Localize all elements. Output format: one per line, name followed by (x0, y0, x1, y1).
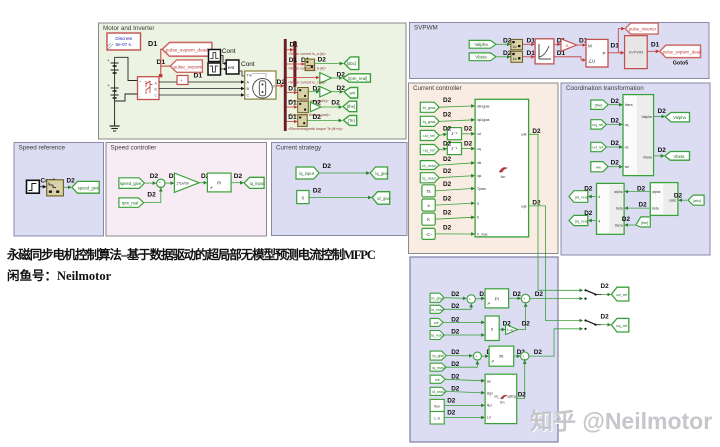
svg-text:Motor and Inverter: Motor and Inverter (103, 25, 154, 32)
wire ud_ref to z1 (439, 134, 446, 135)
constant a (422, 199, 435, 211)
tag id_read (from, dec1) (430, 305, 444, 313)
svg-text:D1: D1 (290, 42, 299, 49)
tag pulse_inverter (goto) (625, 23, 658, 34)
unit delay z1 (447, 128, 461, 140)
sum3 (q-axis) (473, 352, 481, 361)
tag id_read (from) (420, 161, 439, 170)
svg-text:ud_ref: ud_ref (423, 133, 435, 138)
svg-text:we: we (487, 379, 491, 383)
svg-text:Valpha: Valpha (474, 42, 488, 47)
svg-text:Tm: Tm (247, 74, 252, 78)
svg-text:D2: D2 (658, 147, 667, 154)
wire flux to fcn2 (444, 404, 484, 406)
PMSM motor block (245, 71, 276, 99)
constant 0 (297, 191, 309, 204)
svg-text:D2: D2 (443, 126, 452, 133)
switch block Cont (220, 56, 239, 75)
svg-text:iq_read: iq_read (422, 176, 435, 181)
wire motor m to bus (276, 85, 284, 87)
svg-text:fcn: fcn (501, 175, 506, 179)
panel Speed controller (106, 143, 267, 237)
svg-text:<Stator current is_b (A)>: <Stator current is_b (A)> (288, 66, 326, 70)
svg-text:D2: D2 (147, 192, 156, 199)
mux block (abc merge) (305, 59, 315, 71)
svg-text:D2: D2 (443, 225, 452, 232)
svg-text:Coordination transformation: Coordination transformation (566, 85, 644, 92)
svg-text:we: we (625, 165, 629, 169)
svg-text:D2: D2 (443, 168, 452, 175)
svg-text:beta: beta (652, 206, 659, 210)
svg-text:uq: uq (477, 147, 481, 151)
svg-text:+: + (180, 78, 183, 83)
svg-text:D1: D1 (148, 39, 157, 48)
tag iq_input (goto) (244, 177, 265, 188)
wire gain theta to the (321, 106, 342, 108)
tag [the] (from, park2) (636, 217, 651, 227)
rate transition 1 (511, 39, 523, 49)
svg-text:D2: D2 (331, 100, 340, 107)
wire sum1 to PI1 (475, 297, 484, 300)
svg-text:wn: wn (349, 91, 355, 96)
svg-text:rpm_real: rpm_real (122, 200, 139, 205)
manual switch 1 (584, 289, 601, 300)
tag rpm_real (from) (119, 198, 144, 207)
svg-text:–: – (470, 300, 472, 304)
tag iq_gwa (from) (420, 116, 439, 126)
svg-text:Ts: Ts (426, 189, 430, 194)
svg-text:id_gwa: id_gwa (423, 105, 436, 110)
wire udk down to switch1 (529, 134, 583, 290)
wire clarke alpha to park2 (625, 191, 650, 193)
constant Ts (422, 185, 435, 197)
svg-text:PI: PI (499, 354, 503, 359)
svg-text:D2: D2 (513, 291, 522, 298)
tag we (from, dec1) (430, 318, 443, 326)
wire the to park2 thera (625, 224, 635, 226)
wire id_give to sum1 (444, 297, 466, 300)
svg-text:iq_read: iq_read (431, 334, 443, 338)
wire selector to gain (308, 91, 319, 93)
svg-text:D2: D2 (534, 349, 543, 356)
gain theta (310, 102, 321, 112)
svg-text:Speed controller: Speed controller (111, 145, 157, 152)
svg-text:vd: vd (625, 146, 629, 150)
svg-text:–: – (525, 300, 527, 304)
svg-text:pulse_svpwm_dead: pulse_svpwm_dead (663, 49, 702, 54)
wire speed to selector (287, 92, 297, 94)
svg-text:D2: D2 (443, 181, 452, 188)
svg-text:D2: D2 (522, 320, 531, 327)
svg-text:Vbeta: Vbeta (475, 55, 487, 60)
svg-text:[abc]: [abc] (693, 199, 701, 203)
svg-text:Discrete: Discrete (115, 36, 132, 41)
svg-text:flux: flux (434, 404, 440, 408)
svg-text:beta: beta (616, 207, 623, 211)
wire ramp to gain (554, 43, 561, 45)
svg-text:D2: D2 (451, 291, 460, 298)
selector block (speed) (298, 88, 309, 100)
wire park2 q out (589, 220, 596, 222)
svg-text:we: we (596, 164, 602, 169)
svg-text:D2: D2 (611, 140, 620, 147)
tag [Te] (goto) (343, 116, 356, 126)
svg-text:Cont: Cont (222, 48, 236, 55)
tag uq_ref (from, park) (591, 120, 607, 129)
rate transition 2 (511, 51, 523, 62)
gain speed (320, 86, 332, 97)
constant flux (430, 399, 444, 411)
current measurement block on phase A (177, 76, 188, 85)
PI controller (q-axis) (489, 346, 514, 366)
sum1 (d-axis) (467, 295, 475, 305)
svg-text:D1: D1 (527, 38, 536, 45)
wire Lq gain to sum2 (518, 304, 526, 330)
DC battery chain (107, 57, 119, 125)
svg-text:P: P (603, 51, 606, 56)
svg-text:[the]: [the] (347, 104, 356, 109)
svg-text:<Electromagnetic torque Te (N*: <Electromagnetic torque Te (N*m)> (288, 127, 343, 131)
svg-text:D2: D2 (318, 57, 327, 64)
svg-text:uq_ref: uq_ref (616, 323, 628, 328)
wire Ts to fcn (435, 188, 474, 191)
gain 2*pi/60 (174, 173, 199, 192)
wire iq_read to fcn (439, 176, 474, 178)
svg-text:iq_input: iq_input (299, 171, 315, 176)
svg-text:D2: D2 (443, 209, 452, 216)
sum4 (q-axis) (521, 352, 529, 361)
tag [abc] (goto) (344, 57, 359, 70)
tag [iq_rea] (goto) (569, 215, 588, 225)
wire iq_gwa to fcn (439, 120, 474, 122)
svg-text:ud_ref: ud_ref (592, 146, 604, 150)
panel Current strategy (272, 143, 408, 236)
tag [the] (from, park) (591, 100, 608, 109)
tag [rpm_real] (goto) (343, 74, 370, 82)
wire iq_input to iq_give (319, 172, 369, 174)
wire SVPWM to dead tag (647, 50, 659, 52)
svg-text:uqk: uqk (521, 204, 527, 208)
svg-text:iqk: iqk (477, 174, 482, 178)
wire park to Valpha (654, 116, 665, 118)
wire uq_ref to park (606, 123, 622, 125)
tag ud_ref (from, park) (591, 142, 607, 151)
wire rpm_real to sum (144, 188, 161, 202)
svg-text:pulse_svpwm_dead: pulse_svpwm_dead (166, 48, 209, 54)
wire park2 d out (589, 196, 596, 198)
wire inverter B to motor (159, 88, 244, 90)
wire ud_ref to park (606, 146, 622, 148)
powergui block Discrete (107, 33, 141, 50)
tag iq_read (from) (420, 173, 439, 183)
wire inverter C to motor (159, 94, 244, 96)
tag Valpha (goto) (665, 113, 689, 122)
wire iq_read to sum3 (446, 361, 477, 367)
svg-text:D1: D1 (194, 73, 203, 80)
svg-text:iq_gwa: iq_gwa (423, 119, 436, 124)
wire iq_read to product (444, 334, 484, 336)
svg-text:5e-07 s.: 5e-07 s. (115, 42, 132, 47)
tag ud_ref (goto) (611, 287, 628, 301)
constant K (422, 213, 435, 225)
svg-text:D2: D2 (584, 185, 593, 192)
wire ramp to MU lower (554, 57, 586, 60)
tag speed_give (goto) (72, 181, 100, 193)
svg-text:m: m (272, 85, 275, 89)
svg-text:vq: vq (625, 123, 629, 127)
svg-text:ud: ud (477, 132, 481, 136)
svg-text:z⁻¹: z⁻¹ (451, 146, 458, 151)
svg-text:D2: D2 (451, 361, 460, 368)
tag iq_read (from, dec2) (430, 363, 446, 371)
wire id_read to fcn (439, 163, 474, 165)
constant -C- (422, 228, 435, 239)
wire is_a (287, 49, 294, 51)
MATLAB function block (MFPC fcn) (475, 99, 528, 237)
wire z2 to fcn (462, 148, 475, 150)
wire id_read to fcn2 (446, 391, 484, 393)
product block (485, 316, 499, 341)
tag iq_give (from, dec) (430, 351, 446, 360)
panel SVPWM (410, 23, 710, 79)
wire gain to wn (331, 91, 342, 93)
tag [abc] (from, clarke) (688, 195, 704, 205)
svg-text:V_max: V_max (477, 232, 488, 236)
tag Valpha (from) (469, 40, 496, 48)
svg-text:D2: D2 (313, 114, 322, 121)
constant L-d (430, 412, 444, 425)
svg-text:D2: D2 (611, 98, 620, 105)
svg-text:we: we (435, 378, 440, 382)
tag id_give (goto) (372, 192, 391, 205)
svg-text:uq_ref: uq_ref (423, 147, 435, 152)
svg-text:2*pi/60: 2*pi/60 (177, 181, 190, 186)
rate transition block (speed ref) (47, 180, 64, 196)
wire gain to PI (199, 182, 206, 184)
svg-text:D2: D2 (443, 195, 452, 202)
block inverse park (dq to alphabeta) (623, 95, 654, 176)
svg-text:Goto5: Goto5 (673, 61, 689, 67)
svg-text:-K-: -K- (565, 43, 571, 48)
wire -C- to fcn (435, 233, 474, 235)
svg-text:q: q (598, 219, 600, 223)
wire z1 to fcn (462, 133, 475, 135)
wire we to park (608, 166, 622, 168)
svg-text:thera: thera (625, 103, 633, 107)
svg-text:D1: D1 (288, 100, 297, 107)
svg-text:D2: D2 (658, 108, 667, 115)
svg-text:D2: D2 (601, 313, 610, 320)
selector block (Te) (298, 115, 308, 127)
panel Coordination transformation (561, 83, 710, 255)
wire selector to Te tag (307, 120, 342, 122)
svg-text:D2: D2 (464, 141, 473, 148)
block M angle U (586, 39, 608, 67)
svg-text:D2: D2 (532, 199, 541, 206)
gain Lq (506, 324, 518, 334)
tag pulse_svpwm_dead (goto) (660, 45, 702, 58)
tag pulse_svpwm (from) (170, 60, 202, 72)
svg-text:<Stator current is_c (A)>: <Stator current is_c (A)> (288, 81, 326, 85)
svg-text:<Stator current is_a (A)>: <Stator current is_a (A)> (288, 52, 326, 56)
tag id_give (from, dec) (430, 293, 444, 302)
svg-text:D1: D1 (651, 42, 660, 49)
svg-text:idk: idk (477, 161, 482, 165)
svg-text:D2: D2 (150, 173, 159, 180)
wire a to fcn (435, 203, 474, 205)
svg-text:M: M (588, 44, 592, 49)
svg-text:Valpha: Valpha (641, 115, 651, 119)
wire Valpha to rt1 (496, 43, 510, 45)
block clarke (abc to alphabeta) (650, 183, 678, 216)
panel Motor and Inverter (99, 23, 407, 139)
svg-text:D1: D1 (288, 86, 297, 93)
ramp block (535, 39, 554, 64)
wire uqk down to switch2 (529, 206, 583, 321)
DC source wire bottom (115, 94, 138, 101)
tag id_gwa (from) (420, 102, 439, 112)
sum block (speed) (157, 179, 165, 188)
manual switch 2 (584, 319, 601, 330)
wire rate transition to tag (63, 186, 71, 188)
svg-text:z⁻¹: z⁻¹ (451, 131, 458, 136)
svg-text:iqk1gwa: iqk1gwa (477, 118, 490, 122)
svg-text:Tpwm: Tpwm (477, 187, 486, 191)
svg-text:[id_rea]: [id_rea] (575, 196, 588, 200)
tag iq_input (from, strategy) (296, 167, 319, 179)
tag id_read (from, dec2) (430, 387, 446, 395)
tag ud_ref (from) (420, 130, 439, 140)
svg-text:Cont: Cont (241, 61, 255, 68)
wire sum4 to switch2 (uq) (529, 329, 583, 356)
svg-text:D1: D1 (289, 57, 298, 64)
svg-text:D2: D2 (451, 303, 460, 310)
svg-text:id_give: id_give (432, 296, 444, 300)
tag speed_give (from) (119, 178, 144, 189)
svg-text:a: a (477, 202, 479, 206)
wire switch1 to ud_ref (601, 294, 611, 296)
ground (110, 121, 120, 131)
svg-text:D1: D1 (527, 50, 536, 57)
svg-text:D2: D2 (443, 156, 452, 163)
svg-text:ud_: ud_ (494, 394, 500, 398)
wire abc to clarke (679, 199, 687, 201)
svg-text:D2: D2 (451, 349, 460, 356)
wire mux to abc tag (315, 63, 343, 65)
svg-text:upling: upling (507, 394, 516, 398)
svg-text:D2: D2 (447, 397, 456, 404)
svg-text:flux: flux (487, 404, 492, 408)
svg-text:Current controller: Current controller (413, 85, 462, 92)
svg-text:PI: PI (217, 181, 221, 186)
wire 0 to id_give (309, 197, 371, 199)
wire sum3 to PI2 (481, 355, 488, 357)
label D2 rows (current controller) (443, 97, 473, 231)
block park (alphabeta to dq) (597, 183, 625, 234)
svg-text:-C-: -C- (426, 232, 432, 237)
svg-text:D2: D2 (622, 216, 631, 223)
wire rt2 to ramp (523, 56, 535, 58)
pulse generator Cont block 1 (209, 50, 221, 62)
gain -K- (svpwm) (561, 39, 577, 52)
svg-text:iq_give: iq_give (433, 354, 445, 358)
tag [the] (goto) (343, 101, 357, 112)
svg-text:SVPWM: SVPWM (629, 51, 643, 55)
wire MU P to SVPWM (608, 52, 624, 54)
caption line 1 (7, 244, 567, 263)
tag iq_give (goto) (370, 167, 389, 179)
wire id_gwa to fcn (439, 106, 474, 107)
svg-text:sign: sign (487, 391, 493, 395)
svg-text:udk: udk (521, 133, 527, 137)
wire the to park (608, 104, 622, 106)
svg-text:pulse_svpwm: pulse_svpwm (173, 64, 202, 70)
step block (27, 180, 40, 193)
svg-text:D2: D2 (518, 391, 527, 398)
svg-text:d: d (598, 195, 600, 199)
svg-text:C: C (247, 94, 250, 98)
svg-text:1/z: 1/z (513, 57, 518, 61)
svg-text:D2: D2 (443, 141, 452, 148)
bus row wm : wire to gain (287, 77, 319, 79)
svg-text:alpha: alpha (652, 190, 660, 194)
svg-text:+: + (139, 80, 141, 84)
wire K to fcn (435, 217, 474, 219)
svg-text:D2: D2 (443, 97, 452, 104)
svg-text:D2: D2 (584, 210, 593, 217)
wire junction to pulse_inverter (618, 29, 624, 53)
tag Vbeta (goto) (665, 152, 690, 161)
wire we to fcn2 (445, 379, 484, 381)
svg-text:PI: PI (495, 296, 499, 301)
tag we (from, dec2) (430, 375, 445, 383)
svg-text:Speed reference: Speed reference (19, 145, 66, 152)
pulse generator Cont block 2 (208, 63, 221, 75)
block SVPWM (625, 36, 648, 69)
svg-text:Ld: Ld (487, 416, 491, 420)
wire inverter A to motor (159, 81, 244, 83)
wire PI1 to sum2 (509, 297, 521, 299)
svg-text:iq_read: iq_read (432, 366, 444, 370)
svg-text:D2: D2 (601, 283, 610, 290)
tag [id_rea] (goto) (569, 191, 588, 203)
wire id_read to sum1 (444, 304, 471, 309)
wire park to Vbeta (654, 155, 664, 157)
svg-text:fcn: fcn (500, 401, 505, 405)
tag wn (goto) (344, 88, 358, 99)
tag we (from, park) (591, 162, 608, 172)
wire gain to rpm_real (331, 77, 342, 79)
svg-text:D2: D2 (639, 202, 648, 209)
svg-text:ent: ent (228, 65, 235, 70)
PI controller (speed) (207, 173, 231, 192)
svg-text:[rpm_real]: [rpm_real] (348, 76, 368, 81)
svg-text:we: we (434, 321, 439, 325)
svg-text:[iq_rea]: [iq_rea] (575, 219, 588, 223)
svg-text:idk1gwa: idk1gwa (477, 104, 490, 108)
wire fcn out to sum4 (517, 361, 525, 399)
svg-text:K: K (427, 217, 430, 222)
svg-text:pulse_inverter: pulse_inverter (629, 27, 657, 32)
svg-text:+: + (107, 83, 110, 88)
svg-text:id_read: id_read (422, 163, 435, 168)
tag uq_ref (from) (420, 145, 439, 155)
inverter block (138, 77, 160, 100)
svg-text:SVPWM: SVPWM (414, 25, 438, 32)
wire we to product (443, 321, 484, 323)
wire switch2 to uq_ref (601, 324, 611, 326)
wire clarke beta to park2 (625, 207, 650, 209)
